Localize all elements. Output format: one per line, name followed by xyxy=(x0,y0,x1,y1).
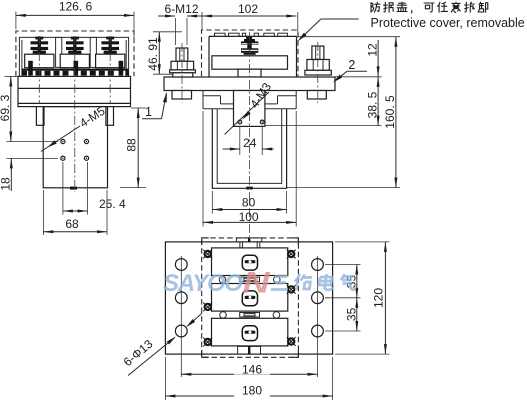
svg-text:100: 100 xyxy=(239,210,259,224)
svg-text:68: 68 xyxy=(65,217,79,231)
svg-text:18: 18 xyxy=(0,177,12,191)
svg-text:160. 5: 160. 5 xyxy=(383,95,397,129)
svg-text:25. 4: 25. 4 xyxy=(99,197,126,211)
svg-text:146: 146 xyxy=(242,362,262,376)
svg-text:2: 2 xyxy=(348,58,355,72)
svg-text:88: 88 xyxy=(124,138,138,152)
svg-text:35: 35 xyxy=(344,307,358,321)
svg-text:69. 3: 69. 3 xyxy=(0,94,12,121)
svg-text:N: N xyxy=(243,266,272,300)
svg-text:6-M12: 6-M12 xyxy=(165,2,199,16)
svg-text:102: 102 xyxy=(238,2,258,16)
svg-text:1: 1 xyxy=(145,105,152,119)
svg-text:SAYOO: SAYOO xyxy=(163,270,243,297)
svg-text:38. 5: 38. 5 xyxy=(365,91,379,118)
svg-text:24: 24 xyxy=(243,136,257,150)
svg-text:46. 91: 46. 91 xyxy=(146,37,160,71)
svg-text:Protective cover, removable: Protective cover, removable xyxy=(371,16,525,30)
svg-text:80: 80 xyxy=(242,196,256,210)
svg-text:120: 120 xyxy=(372,288,386,308)
svg-text:12: 12 xyxy=(365,43,379,57)
svg-text:180: 180 xyxy=(242,384,262,398)
svg-text:126. 6: 126. 6 xyxy=(59,0,93,14)
